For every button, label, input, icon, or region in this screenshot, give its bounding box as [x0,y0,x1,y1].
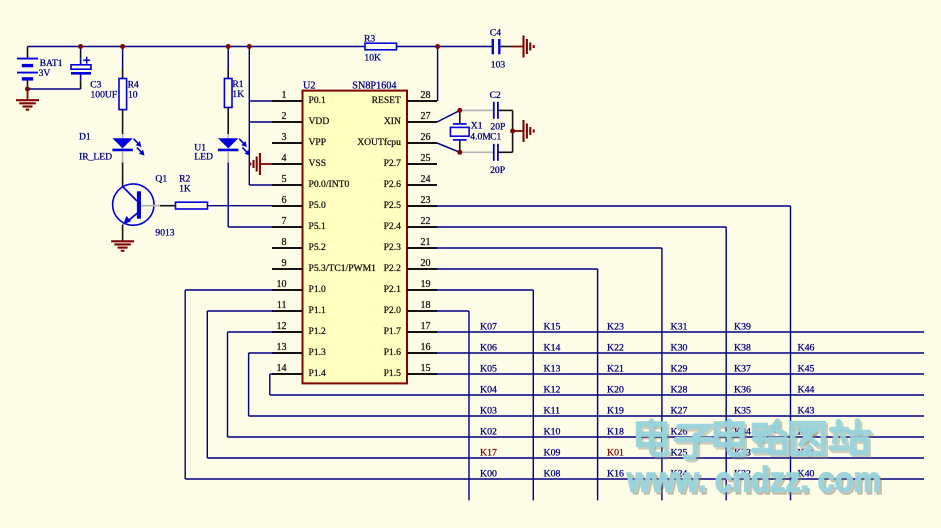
svg-text:P2.7: P2.7 [384,158,402,169]
svg-text:1K: 1K [179,184,191,195]
svg-text:K10: K10 [544,427,561,438]
svg-text:P2.1: P2.1 [384,284,402,295]
svg-text:10: 10 [128,89,138,100]
svg-text:XIN: XIN [384,116,401,127]
svg-text:K23: K23 [607,322,624,333]
svg-text:10: 10 [277,279,287,290]
svg-text:K27: K27 [671,406,688,417]
svg-text:P1.3: P1.3 [309,347,327,358]
svg-text:P1.1: P1.1 [309,305,327,316]
svg-text:25: 25 [421,153,431,164]
svg-text:C1: C1 [490,132,501,143]
svg-text:VSS: VSS [309,158,327,169]
svg-text:K20: K20 [607,385,624,396]
svg-text:16: 16 [421,342,431,353]
svg-text:K16: K16 [607,469,624,480]
svg-text:P1.6: P1.6 [384,347,402,358]
svg-text:K29: K29 [671,364,688,375]
svg-text:K02: K02 [480,427,497,438]
svg-text:11: 11 [277,300,287,311]
svg-text:K04: K04 [480,385,497,396]
svg-text:28: 28 [421,90,431,101]
svg-text:P0.0/INT0: P0.0/INT0 [309,179,350,190]
svg-text:K18: K18 [607,427,624,438]
svg-text:XOUTfcpu: XOUTfcpu [357,137,401,148]
svg-text:K35: K35 [734,406,751,417]
svg-text:K38: K38 [734,343,751,354]
svg-text:6: 6 [282,195,287,206]
svg-text:K11: K11 [544,406,561,417]
svg-text:K30: K30 [671,343,688,354]
svg-text:K09: K09 [544,448,561,459]
svg-text:9013: 9013 [155,227,174,238]
svg-text:IR_LED: IR_LED [79,151,112,162]
svg-text:P1.2: P1.2 [309,326,327,337]
svg-text:7: 7 [282,216,287,227]
svg-text:21: 21 [421,237,431,248]
svg-text:www. cndzz. com: www. cndzz. com [626,461,881,500]
svg-text:1K: 1K [232,89,244,100]
svg-text:P1.5: P1.5 [384,368,402,379]
svg-text:14: 14 [277,363,287,374]
svg-text:8: 8 [282,237,287,248]
svg-text:K46: K46 [798,343,815,354]
svg-text:P1.0: P1.0 [309,284,327,295]
svg-text:2: 2 [282,111,287,122]
svg-text:K44: K44 [798,385,815,396]
svg-text:K13: K13 [544,364,561,375]
svg-text:26: 26 [421,132,431,143]
svg-text:103: 103 [491,60,506,71]
svg-text:13: 13 [277,342,287,353]
svg-text:10K: 10K [364,53,381,64]
svg-text:K00: K00 [480,469,497,480]
svg-text:RESET: RESET [372,95,401,106]
svg-text:4.0M: 4.0M [470,132,491,143]
svg-text:VDD: VDD [309,116,330,127]
svg-text:VPP: VPP [309,137,327,148]
svg-text:P0.1: P0.1 [309,95,327,106]
svg-text:P2.0: P2.0 [384,305,402,316]
svg-text:K21: K21 [607,364,624,375]
svg-text:C2: C2 [490,90,501,101]
svg-text:19: 19 [421,279,431,290]
svg-text:P5.1: P5.1 [309,221,327,232]
svg-text:K43: K43 [798,406,815,417]
svg-text:D1: D1 [79,132,91,143]
svg-text:P2.6: P2.6 [384,179,402,190]
svg-text:K19: K19 [607,406,624,417]
svg-text:18: 18 [421,300,431,311]
svg-text:X1: X1 [471,121,483,132]
svg-text:K12: K12 [544,385,561,396]
svg-text:P5.0: P5.0 [309,200,327,211]
svg-text:P1.7: P1.7 [384,326,402,337]
svg-text:P2.2: P2.2 [384,263,402,274]
svg-text:K03: K03 [480,406,497,417]
svg-text:K08: K08 [544,469,561,480]
svg-text:27: 27 [421,111,431,122]
svg-text:100UF: 100UF [91,89,118,100]
svg-text:K05: K05 [480,364,497,375]
svg-text:K17: K17 [480,448,497,459]
svg-text:4: 4 [282,153,287,164]
svg-text:20P: 20P [490,165,505,176]
svg-text:LED: LED [194,151,213,162]
svg-text:P5.3/TC1/PWM1: P5.3/TC1/PWM1 [309,263,377,274]
svg-text:K39: K39 [734,322,751,333]
svg-text:K22: K22 [607,343,624,354]
svg-text:22: 22 [421,216,431,227]
svg-text:SN8P1604: SN8P1604 [352,81,396,92]
svg-text:5: 5 [282,174,287,185]
svg-text:Q1: Q1 [155,174,167,185]
svg-text:K06: K06 [480,343,497,354]
svg-text:P2.3: P2.3 [384,242,402,253]
svg-text:R3: R3 [364,34,375,45]
svg-text:P2.5: P2.5 [384,200,402,211]
svg-text:K31: K31 [671,322,688,333]
svg-text:C4: C4 [490,28,501,39]
svg-text:K01: K01 [607,448,624,459]
svg-text:K37: K37 [734,364,751,375]
svg-text:3: 3 [282,132,287,143]
svg-text:P1.4: P1.4 [309,368,327,379]
svg-text:K14: K14 [544,343,561,354]
svg-text:K45: K45 [798,364,815,375]
svg-text:3V: 3V [39,68,51,79]
svg-text:K36: K36 [734,385,751,396]
svg-text:K15: K15 [544,322,561,333]
svg-text:12: 12 [277,321,287,332]
svg-text:P5.2: P5.2 [309,242,327,253]
svg-text:15: 15 [421,363,431,374]
svg-text:9: 9 [282,258,287,269]
svg-text:U2: U2 [303,81,315,92]
svg-text:23: 23 [421,195,431,206]
svg-text:17: 17 [421,321,431,332]
svg-text:K28: K28 [671,385,688,396]
svg-text:20: 20 [421,258,431,269]
svg-text:1: 1 [282,90,287,101]
svg-text:24: 24 [421,174,431,185]
svg-text:P2.4: P2.4 [384,221,402,232]
svg-text:K07: K07 [480,322,497,333]
